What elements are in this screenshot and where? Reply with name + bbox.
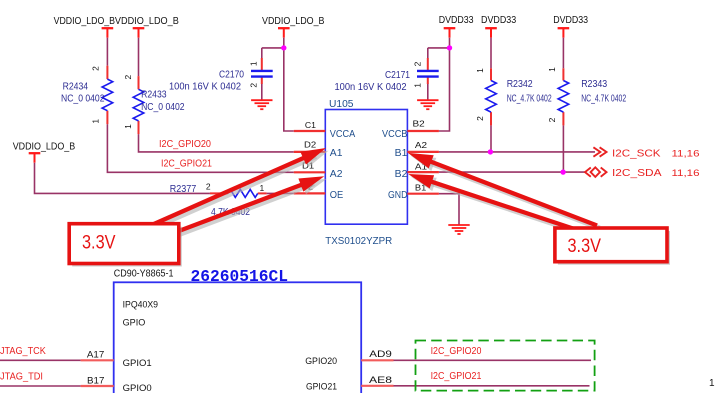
wire: branch to C2171: [428, 48, 450, 59]
ground (below U105 GND pin): [448, 225, 469, 234]
ground (below C2170): [251, 100, 272, 109]
svg-text:GPIO0: GPIO0: [123, 383, 152, 393]
resistor R2433 NC_0 0402: [123, 75, 185, 135]
svg-text:U105: U105: [329, 99, 354, 110]
svg-text:1: 1: [123, 124, 133, 129]
pin A2 (B1): [407, 140, 439, 152]
wire: OE net from power flag through R2377: [35, 163, 294, 194]
svg-text:OE: OE: [330, 190, 344, 201]
svg-text:A1: A1: [330, 148, 343, 159]
svg-text:I2C_SDA: I2C_SDA: [612, 168, 662, 179]
svg-text:AD9: AD9: [369, 349, 392, 360]
op IC U105 TXS0102YZPR level shifter: [325, 99, 408, 247]
svg-text:CD90-Y8865-1: CD90-Y8865-1: [114, 269, 174, 280]
svg-text:GPIO21: GPIO21: [306, 382, 337, 393]
pin A1 (B2): [407, 162, 439, 173]
svg-text:NC_4.7K 0402: NC_4.7K 0402: [581, 93, 626, 104]
svg-text:GPIO: GPIO: [123, 317, 146, 328]
svg-text:DVDD33: DVDD33: [439, 15, 474, 26]
power flag DVDD33 (feeds R2343): [553, 15, 588, 38]
pin AD9 (GPIO20): [361, 349, 393, 360]
callout box 3.3V (right): [555, 228, 670, 265]
svg-text:AE8: AE8: [369, 375, 392, 386]
svg-text:1: 1: [709, 378, 715, 389]
svg-text:26260516CL: 26260516CL: [191, 268, 289, 287]
capacitor C2171 100n 16V K 0402: [335, 58, 439, 93]
wire: net I2C_SCK from pin B1 to off-page connector: [439, 151, 595, 153]
node junction VDDIO_LDO_B / C2170: [281, 45, 286, 50]
power flag DVDD33 (feeds R2342): [481, 15, 517, 38]
svg-text:TXS0102YZPR: TXS0102YZPR: [325, 236, 392, 247]
svg-text:1: 1: [91, 119, 101, 124]
svg-text:VDDIO_LDO_B: VDDIO_LDO_B: [262, 16, 325, 27]
svg-text:1: 1: [248, 61, 258, 66]
resistor R2342 NC_4.7K 0402: [475, 68, 552, 126]
svg-text:VCCB: VCCB: [382, 129, 408, 140]
svg-text:11,16: 11,16: [672, 148, 700, 159]
wire: GPIO20 to I2C_GPIO20 (into dashed box): [394, 359, 592, 361]
svg-text:C1: C1: [305, 120, 316, 130]
pin B17 (GPIO0): [81, 376, 114, 387]
highlight box (green dashed) around I2C_GPIO nets: [416, 341, 595, 391]
capacitor C2170 100n 16V K 0402: [169, 58, 273, 93]
svg-text:R2343: R2343: [581, 79, 607, 90]
net label I2C_GPIO21: [161, 158, 212, 169]
wire: DVDD33 down through R2343 to I2C_SDA: [562, 38, 564, 172]
power flag VDDIO_LDO_B (second, feeds R2433): [115, 16, 179, 38]
resistor R2343 NC_4.7K 0402: [547, 67, 626, 126]
svg-text:D2: D2: [304, 140, 316, 150]
wire: VDDIO_LDO_B rail down to VCCA pin: [284, 38, 294, 131]
wire: C2170 bottom to ground: [261, 84, 263, 101]
power flag VDDIO_LDO_B (left, feeds R2434): [54, 16, 116, 38]
svg-text:B2: B2: [413, 119, 426, 129]
svg-text:2: 2: [248, 83, 258, 88]
svg-text:GND: GND: [388, 190, 407, 201]
svg-text:A2: A2: [330, 169, 343, 180]
svg-text:2: 2: [206, 182, 211, 192]
svg-text:1: 1: [547, 67, 557, 72]
svg-text:A2: A2: [415, 140, 428, 150]
svg-text:I2C_GPIO20: I2C_GPIO20: [431, 346, 482, 357]
svg-text:C2171: C2171: [385, 70, 410, 81]
ground (below C2171): [417, 100, 438, 109]
svg-text:11,16: 11,16: [672, 168, 700, 179]
svg-text:VDDIO_LDO_B: VDDIO_LDO_B: [115, 16, 179, 27]
svg-text:JTAG_TCK: JTAG_TCK: [0, 346, 46, 357]
annotation arrow to pin B1: [408, 153, 600, 228]
svg-text:100n 16V K 0402: 100n 16V K 0402: [335, 82, 407, 93]
annotation arrow to pin B2: [408, 174, 580, 233]
svg-text:R2434: R2434: [63, 82, 89, 93]
wire: net I2C_GPIO20 from R2433 down then right to pin A1: [139, 38, 294, 152]
svg-text:I2C_GPIO20: I2C_GPIO20: [159, 139, 211, 150]
svg-text:JTAG_TDI: JTAG_TDI: [0, 372, 43, 383]
wire: JTAG_TDI to GPIO0: [0, 385, 81, 387]
wire: GPIO21 to I2C_GPIO21 (into dashed box): [394, 385, 590, 387]
svg-text:IPQ40X9: IPQ40X9: [123, 299, 158, 310]
svg-text:2: 2: [91, 66, 101, 71]
svg-text:VCCA: VCCA: [330, 129, 356, 140]
svg-text:2: 2: [547, 117, 557, 122]
svg-text:GPIO20: GPIO20: [305, 356, 337, 367]
svg-text:R2433: R2433: [141, 89, 167, 100]
svg-text:2: 2: [123, 75, 133, 80]
svg-text:B1: B1: [395, 148, 408, 159]
svg-text:I2C_SCK: I2C_SCK: [612, 149, 661, 160]
off-page connector I2C_SCK (output chevron): [593, 147, 699, 159]
net label I2C_GPIO20: [159, 139, 211, 150]
svg-text:2: 2: [412, 61, 422, 66]
pin D2 (A1): [294, 140, 326, 152]
svg-text:1: 1: [412, 83, 422, 88]
svg-text:A17: A17: [87, 350, 104, 361]
wire: DVDD33 down through R2342 to I2C_SCK: [490, 38, 492, 152]
svg-text:2: 2: [475, 116, 485, 121]
resistor R2377 4.7K 0402 (horizontal, in OE net): [170, 182, 267, 218]
wire: GND pin to ground symbol: [439, 194, 459, 225]
svg-text:100n 16V K 0402: 100n 16V K 0402: [169, 82, 241, 93]
svg-text:NC_0 0402: NC_0 0402: [141, 102, 185, 113]
off-page connector I2C_SDA (bidirectional diamond): [585, 167, 700, 179]
node junction R2342 / I2C_SCK: [488, 149, 493, 154]
svg-text:3.3V: 3.3V: [568, 236, 602, 257]
pin B2 (VCCB): [407, 119, 439, 131]
annotation arrow to pin A1: [151, 148, 329, 228]
svg-text:GPIO1: GPIO1: [123, 358, 152, 369]
power flag VDDIO_LDO_B (left middle, feeds OE via R2377): [13, 141, 76, 162]
pin A17 (GPIO1): [81, 350, 114, 361]
node junction R2343 / I2C_SDA: [560, 169, 565, 174]
annotation arrow to pin A2: [178, 176, 327, 234]
svg-text:1: 1: [260, 183, 265, 193]
pin C2 (OE): [294, 181, 326, 193]
page number: [709, 378, 715, 389]
wire: JTAG_TCK to GPIO1: [0, 359, 81, 361]
svg-text:B17: B17: [87, 376, 104, 387]
svg-text:3.3V: 3.3V: [82, 233, 116, 254]
svg-text:NC_0 0402: NC_0 0402: [61, 93, 105, 104]
svg-text:VDDIO_LDO_B: VDDIO_LDO_B: [54, 16, 116, 27]
svg-text:R2342: R2342: [507, 79, 533, 90]
pin D1 (A2): [294, 161, 326, 173]
net label JTAG_TDI: [0, 372, 43, 383]
pin C1 (VCCA): [294, 120, 326, 131]
IC IPQ40X9 GPIO block (CD90-Y8865-1 / 26260516CL): [114, 268, 362, 393]
svg-text:VDDIO_LDO_B: VDDIO_LDO_B: [13, 141, 76, 152]
svg-text:DVDD33: DVDD33: [481, 15, 517, 26]
pin AE8 (GPIO21): [361, 375, 393, 386]
svg-text:B2: B2: [395, 169, 408, 180]
power flag DVDD33 (above C2171, feeds VCCB): [439, 15, 474, 38]
svg-text:R2377: R2377: [170, 184, 197, 195]
wire: net I2C_SDA from pin B2 to off-page connector: [439, 171, 585, 173]
resistor R2434 NC_0 0402: [61, 66, 113, 124]
svg-text:I2C_GPIO21: I2C_GPIO21: [431, 371, 482, 382]
net label JTAG_TCK: [0, 346, 46, 357]
callout box 3.3V (left): [69, 224, 182, 267]
wire: branch to C2170: [262, 48, 284, 59]
svg-text:DVDD33: DVDD33: [553, 15, 588, 26]
svg-text:C2170: C2170: [219, 70, 244, 81]
pin B1 (GND): [407, 182, 439, 193]
wire: C2171 bottom to ground: [427, 84, 429, 101]
svg-text:NC_4.7K 0402: NC_4.7K 0402: [507, 93, 552, 104]
power flag VDDIO_LDO_B (above C2170, feeds VCCA): [262, 16, 325, 38]
wire: net I2C_GPIO21 from R2434 down then right to pin A2: [107, 38, 293, 173]
node junction DVDD33 / C2171: [447, 45, 452, 50]
svg-text:1: 1: [475, 68, 485, 73]
svg-text:I2C_GPIO21: I2C_GPIO21: [161, 158, 212, 169]
wire: DVDD33 rail down to VCCB pin: [439, 38, 450, 131]
